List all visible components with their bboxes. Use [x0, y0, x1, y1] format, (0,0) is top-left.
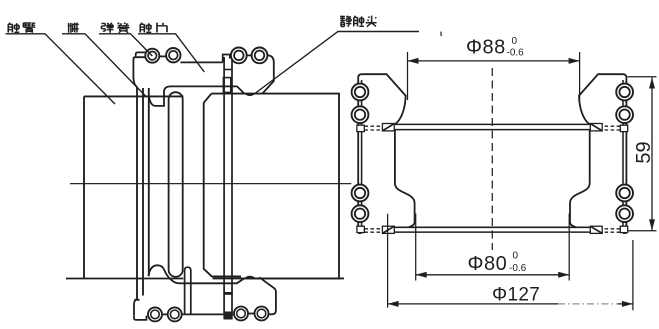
- dimension Phi88: [408, 52, 580, 100]
- contact arm tube (left tube): [66, 96, 344, 278]
- label "jing chu tou" (static contact): [340, 16, 376, 27]
- flange top (section lines): [395, 124, 590, 129]
- svg-text:0: 0: [512, 36, 518, 47]
- dimension Phi80: [416, 214, 570, 281]
- label leader lines: [6, 32, 420, 105]
- left half of sectional body: [352, 74, 415, 233]
- center axis dashed: [491, 68, 493, 250]
- top contact-finger bracket: [133, 52, 273, 106]
- grid cage bars (3 vertical bars): [137, 87, 149, 300]
- dimension 59: [628, 77, 657, 231]
- contact finger strip (bottom): [185, 267, 191, 314]
- label "shan" (grid): [68, 23, 79, 33]
- spring capsule (stadium slot): [169, 92, 183, 277]
- svg-text:-0.6: -0.6: [507, 48, 525, 59]
- svg-text:59: 59: [633, 141, 655, 163]
- svg-text:Φ88: Φ88: [466, 37, 506, 59]
- right half of sectional body (mirror): [570, 74, 633, 233]
- static contact tube (right tube): [204, 94, 339, 279]
- svg-text:-0.6: -0.6: [509, 263, 527, 274]
- flange bottom (section lines): [394, 227, 590, 232]
- horizontal centerline of left view: [70, 183, 351, 185]
- svg-text:0: 0: [513, 251, 519, 262]
- label "chu bi" (contact arm): [8, 23, 35, 33]
- svg-text:Φ127: Φ127: [492, 285, 540, 306]
- svg-text:Φ80: Φ80: [468, 253, 508, 275]
- spring rollers top (4 double rings): [145, 48, 267, 64]
- center bolt: [223, 57, 232, 320]
- dimension texts: [466, 36, 655, 306]
- bottom contact-finger bracket: [134, 265, 276, 320]
- label "tan huang" (spring): [102, 23, 130, 33]
- dimension Phi127: [388, 214, 633, 311]
- stray mark: [440, 32, 443, 37]
- spring rollers bottom (4 double rings): [148, 307, 269, 322]
- label "chu pian" (contact segment): [140, 23, 167, 33]
